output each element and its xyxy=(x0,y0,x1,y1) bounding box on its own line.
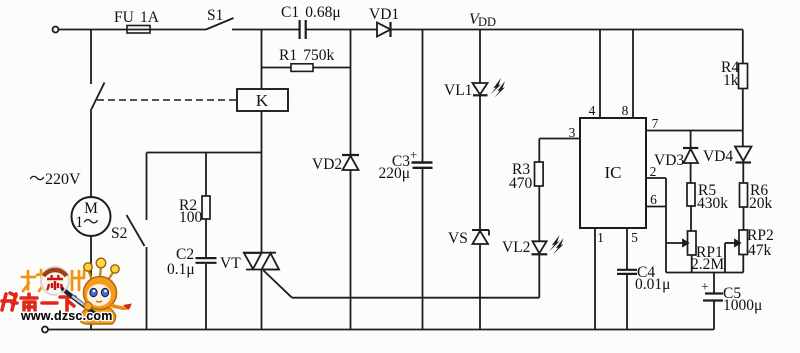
svg-text:VD2: VD2 xyxy=(312,156,342,173)
svg-text:S2: S2 xyxy=(111,225,127,242)
svg-text:1000μ: 1000μ xyxy=(723,297,762,314)
svg-text:VD1: VD1 xyxy=(369,6,399,23)
svg-text:1: 1 xyxy=(597,230,604,245)
svg-text:220μ: 220μ xyxy=(378,165,410,182)
svg-text:VT: VT xyxy=(220,255,241,272)
svg-text:0.1μ: 0.1μ xyxy=(167,261,195,278)
svg-text:～220V: ～220V xyxy=(29,171,81,188)
svg-text:VL2: VL2 xyxy=(502,239,530,256)
svg-text:1k: 1k xyxy=(723,72,739,89)
svg-text:2: 2 xyxy=(650,164,657,179)
svg-text:FU 1A: FU 1A xyxy=(114,9,160,26)
svg-text:VL1: VL1 xyxy=(444,82,472,99)
svg-text:VD3: VD3 xyxy=(654,152,684,169)
svg-text:4: 4 xyxy=(589,103,596,118)
svg-text:VD4: VD4 xyxy=(703,148,733,165)
svg-text:S1: S1 xyxy=(207,7,223,24)
svg-text:3: 3 xyxy=(569,125,576,140)
svg-text:R1 750k: R1 750k xyxy=(279,47,335,64)
svg-text:DD: DD xyxy=(478,15,496,29)
svg-text:430k: 430k xyxy=(697,195,728,212)
svg-text:6: 6 xyxy=(650,192,657,207)
svg-text:+: + xyxy=(410,147,417,162)
svg-text:1～: 1～ xyxy=(75,214,98,231)
svg-text:20k: 20k xyxy=(749,195,773,212)
svg-text:K: K xyxy=(256,91,269,110)
svg-text:100: 100 xyxy=(179,209,203,226)
svg-text:47k: 47k xyxy=(748,242,772,259)
svg-text:+: + xyxy=(701,280,709,295)
svg-text:0.01μ: 0.01μ xyxy=(635,276,670,293)
svg-text:8: 8 xyxy=(622,103,629,118)
svg-text:IC: IC xyxy=(605,163,622,182)
svg-text:470: 470 xyxy=(509,175,533,192)
svg-text:C1 0.68μ: C1 0.68μ xyxy=(281,4,341,21)
svg-text:5: 5 xyxy=(631,230,638,245)
svg-text:www.dzsc.com: www.dzsc.com xyxy=(20,309,113,323)
svg-text:2.2M: 2.2M xyxy=(691,256,724,273)
svg-text:VS: VS xyxy=(448,230,468,247)
svg-text:7: 7 xyxy=(652,116,659,131)
